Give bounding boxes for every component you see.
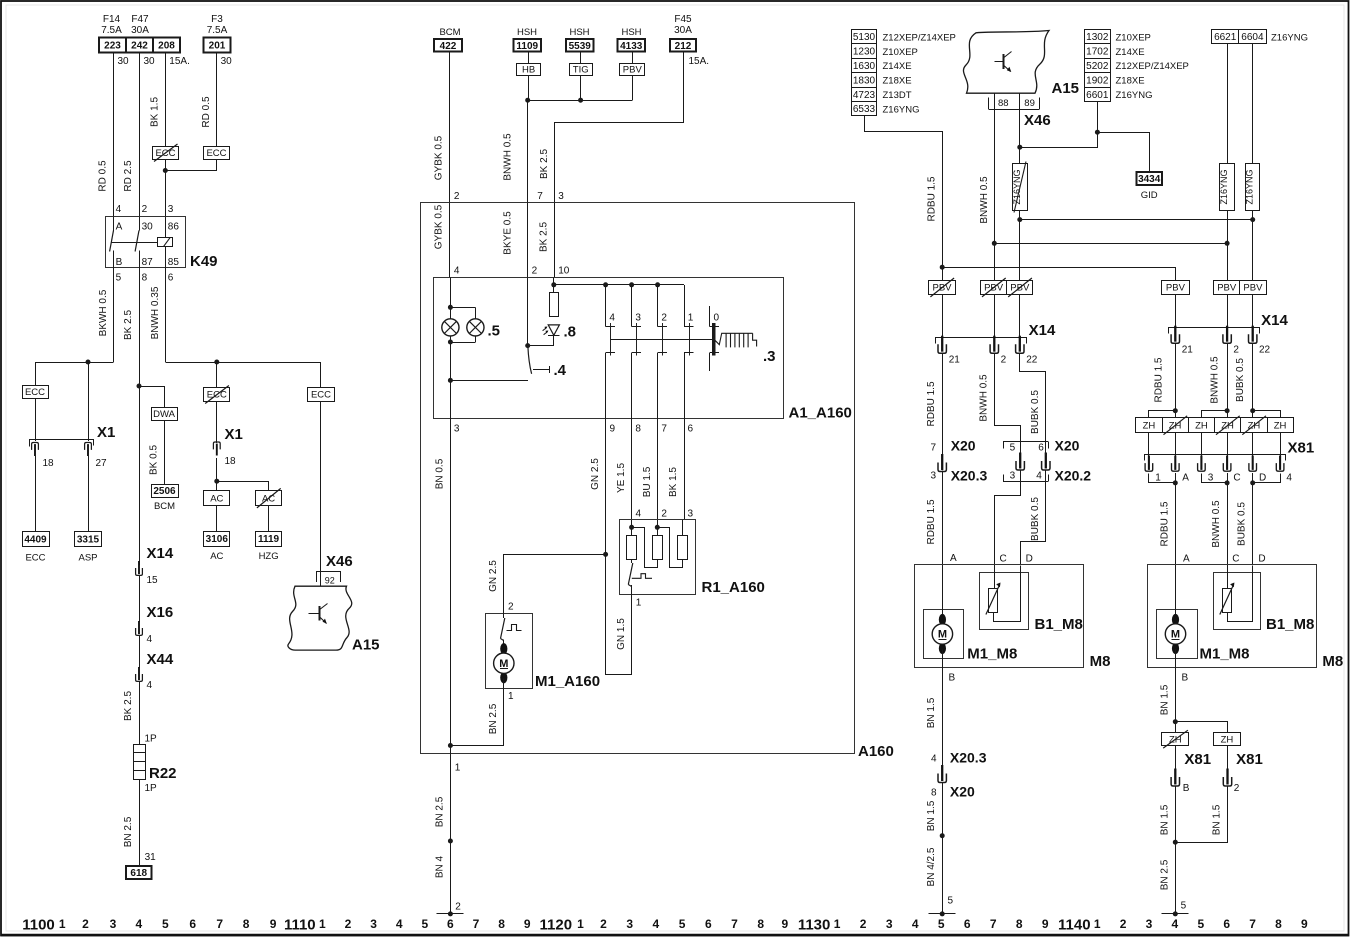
svg-text:4: 4 [1036,471,1042,482]
svg-text:X20.3: X20.3 [951,468,988,484]
rotary switch detent comb [715,333,757,347]
svg-text:M8: M8 [1090,653,1111,670]
rotary switch contact position 1 [684,285,686,327]
X1 connector bracket left [30,440,94,447]
PBV option box right pair 2 [1240,281,1267,295]
wire BN 0.5 pin 3 down [450,419,452,754]
svg-text:87: 87 [142,257,154,268]
wire BK 2.5 from K49 pin 8 [139,267,141,565]
wire RD 0.5 fuse 223 to K49 pin 4 [113,53,115,217]
svg-text:1140: 1140 [1058,917,1091,934]
svg-text:.4: .4 [554,362,567,379]
X81 pin 4 [1279,456,1281,470]
wire BK 2.5 X44 to R22 [139,682,141,745]
junction 6604 bus [1250,217,1255,222]
svg-text:BNWH 0.35: BNWH 0.35 [150,286,161,339]
svg-text:BN 1.5: BN 1.5 [1212,804,1223,835]
svg-text:10: 10 [558,266,570,277]
junction at TIG wire [578,98,583,103]
connector box 3106 [204,532,230,547]
svg-text:15A.: 15A. [169,56,190,67]
lamp circuit wire [450,278,452,419]
X81 pin A [1174,456,1176,470]
ECC option box (crossed) at AC branch [204,388,230,402]
X14 pin 2 [993,336,995,352]
svg-text:4: 4 [136,917,143,931]
wire BKWH 0.5 from K49 pin 5 [113,267,115,362]
svg-text:A15: A15 [1052,80,1080,97]
R1 internal wiring pin3 [682,520,684,536]
svg-text:BK 1.5: BK 1.5 [150,97,161,127]
wire BN 1.5 X81.B down [1175,787,1177,914]
svg-text:30A: 30A [131,25,149,36]
svg-text:BN 2.5: BN 2.5 [1159,859,1170,890]
svg-text:X14: X14 [147,545,174,562]
switch unit A1_A160 box [434,278,784,419]
wire bus to AC/HZG and A15 branches [165,362,321,364]
svg-text:30: 30 [144,56,156,67]
svg-text:3: 3 [626,917,633,931]
wire BKYE 0.5 inside A160 [527,202,529,277]
svg-text:3: 3 [110,917,117,931]
junction BUBK ZH branch [1250,408,1255,413]
module A15 outline bottom left [288,586,352,650]
svg-text:5: 5 [938,917,945,931]
DWA option box [152,408,178,421]
thermistor symbol left [989,589,998,613]
svg-text:2: 2 [82,917,89,931]
wire BNWH 0.5 to ZH row [1227,344,1229,418]
wire BN 1.5 to splice [942,783,944,914]
svg-text:212: 212 [675,41,692,52]
junction on BK 1.5 wire [163,168,168,173]
wires ZH row to X81 pins [1148,432,1150,456]
svg-text:Z14XE: Z14XE [883,61,912,72]
svg-text:3: 3 [931,471,937,482]
svg-text:RD 0.5: RD 0.5 [201,96,212,128]
wire to X1 pin 18 right [216,401,218,443]
svg-text:BU 1.5: BU 1.5 [642,466,653,497]
svg-text:X81: X81 [1184,751,1211,768]
svg-text:3: 3 [1146,917,1153,931]
svg-text:BN 0.5: BN 0.5 [435,458,446,489]
svg-text:X20: X20 [951,438,976,454]
svg-text:208: 208 [158,41,175,52]
X14 pin 22 [1019,336,1021,352]
illumination lamp .5 right [467,319,484,336]
svg-text:M1_M8: M1_M8 [967,646,1017,663]
svg-text:B1_M8: B1_M8 [1035,616,1083,633]
svg-text:3: 3 [688,509,694,520]
svg-text:5: 5 [421,917,428,931]
svg-text:M1_A160: M1_A160 [535,673,600,690]
resistor R22 [134,745,146,780]
engine variant fuse table left [852,30,877,44]
PBV option box [620,64,645,76]
svg-text:A: A [1182,473,1189,484]
svg-text:4: 4 [609,313,615,324]
svg-text:85: 85 [168,257,180,268]
ground connector box 618 [126,866,152,879]
junction M1 return [448,743,453,748]
svg-text:4723: 4723 [853,90,876,101]
svg-text:GN 2.5: GN 2.5 [488,560,499,592]
svg-text:RDBU 1.5: RDBU 1.5 [927,176,938,221]
junction at ASP branch [86,360,91,365]
svg-text:X20.3: X20.3 [950,750,987,766]
svg-text:B: B [1182,673,1189,684]
svg-text:22: 22 [1026,355,1038,366]
wire BK 1.5 pin 6 to R1 pin 3 [684,419,686,520]
svg-text:BNWH 0.5: BNWH 0.5 [503,133,514,181]
wire bus HB TIG PBV [528,75,530,100]
wire X14 to X16 [139,576,141,623]
svg-text:1100: 1100 [22,917,55,934]
R1 thermal switch [631,560,633,564]
svg-text:HSH: HSH [517,27,537,38]
rotary switch contact position 3 [631,285,633,327]
HB option box [517,64,541,76]
X81 pin D [1252,456,1254,470]
svg-text:4: 4 [912,917,919,931]
wire BNWH to right X14 pin 2 [1227,294,1229,326]
wire AC to 3106 [216,505,218,531]
wire from 6621 [1227,44,1229,164]
svg-text:1230: 1230 [853,47,876,58]
svg-text:2: 2 [1233,345,1239,356]
svg-text:R1_A160: R1_A160 [702,579,765,596]
svg-text:B: B [116,257,123,268]
svg-text:1: 1 [319,917,326,931]
wire BNWH 0.5 to A160 pin 7 [527,100,529,202]
resistor above LED [550,293,559,317]
svg-text:6533: 6533 [853,104,876,115]
svg-text:AC: AC [210,551,223,562]
svg-text:A15: A15 [352,637,380,654]
svg-text:B: B [949,673,956,684]
svg-text:15: 15 [147,575,159,586]
wire BNWH 0.35 from K49 pin 6 [165,267,167,362]
svg-text:1302: 1302 [1086,32,1109,43]
svg-text:BN 4: BN 4 [435,855,446,878]
svg-text:2: 2 [142,204,148,215]
svg-text:BNWH 0.5: BNWH 0.5 [1211,500,1222,548]
junction RDBU to right fan bus [940,265,945,270]
fuse box 6621 [1212,30,1239,44]
svg-text:4: 4 [147,634,153,645]
wire bus to ECC and ASP branches [35,362,114,364]
connector box 4409 [23,532,50,547]
fan module M8 left box [915,565,1084,668]
engine code label Z16YNG on 6604 wire [1246,164,1260,211]
R1 internal wiring pin2 [657,520,659,536]
X20.3/X20 pin lower [941,765,943,781]
fuse box 242 [126,38,153,53]
svg-text:9: 9 [1301,917,1308,931]
svg-text:1830: 1830 [853,75,876,86]
svg-text:8: 8 [142,273,148,284]
ZH option box 4 crossed [1215,418,1241,433]
svg-text:27: 27 [96,458,108,469]
svg-text:4: 4 [653,917,660,931]
svg-text:BN 2.5: BN 2.5 [435,796,446,827]
svg-text:4: 4 [636,509,642,520]
M1 thermal symbol [507,625,522,631]
junction BNWH to bus [992,241,997,246]
svg-text:4: 4 [454,266,460,277]
wire BNWH X20.2-3 to M8 pin C [995,471,1021,566]
ECC option box (crossed) on BK 1.5 wire [153,147,179,160]
svg-text:2: 2 [1001,355,1007,366]
svg-text:1630: 1630 [853,61,876,72]
svg-text:BN 4/2.5: BN 4/2.5 [926,847,937,886]
wire ECC to K49 pin 3 [165,159,167,217]
wire BU 1.5 pin 7 to R1 pin 2 [657,419,659,520]
TIG option box [570,64,593,76]
svg-text:242: 242 [131,41,148,52]
svg-text:BN 1.5: BN 1.5 [1159,684,1170,715]
ZH option box 3 [1189,418,1215,433]
svg-text:3: 3 [168,204,174,215]
svg-text:BN 1.5: BN 1.5 [1159,804,1170,835]
svg-text:6: 6 [189,917,196,931]
svg-text:9: 9 [524,917,531,931]
wire ECC to X46 pin 92 [320,401,322,586]
ECC option box on RD 0.5 wire [204,147,230,160]
svg-text:21: 21 [1182,345,1194,356]
rotary switch contact position 2 [657,285,659,327]
wire RDBU to right X14 pin 21 [1175,294,1177,326]
svg-text:BUBK 0.5: BUBK 0.5 [1237,502,1248,546]
svg-text:BNWH 0.5: BNWH 0.5 [978,374,989,422]
svg-text:Z12XEP/Z14XEP: Z12XEP/Z14XEP [883,32,956,43]
wire RD 2.5 fuse 242 to K49 pin 2 [139,53,141,217]
engine code label Z16YNG on 89 wire (crossed) [1013,164,1028,211]
svg-text:X14: X14 [1029,322,1056,339]
svg-text:BN 2.5: BN 2.5 [123,816,134,847]
svg-text:A: A [116,221,123,232]
junction at HZG branch [214,479,219,484]
connector box 4133 [618,39,646,52]
svg-text:9: 9 [782,917,789,931]
X20 pin 5-3 [1019,453,1021,469]
svg-text:RDBU 1.5: RDBU 1.5 [926,381,937,426]
ground point middle [437,913,464,915]
svg-text:BCM: BCM [439,27,460,38]
wire BUBK 0.5 to ZH row [1252,344,1254,418]
switch .4 arm [528,347,532,374]
X81 pin B [1174,769,1176,785]
transistor symbol in A15 top [995,61,1004,63]
resistor B1_M8 left box [980,573,1029,630]
svg-text:8: 8 [635,424,641,435]
svg-text:7: 7 [537,191,543,202]
wire BN 2.5 R22 to 618 [139,779,141,866]
svg-text:8: 8 [1016,917,1023,931]
rotary switch contact position 4 [605,285,607,327]
wire from 6604 [1252,44,1254,164]
svg-text:B: B [1183,783,1190,794]
svg-text:8: 8 [498,917,505,931]
svg-text:GYBK 0.5: GYBK 0.5 [434,204,445,249]
svg-text:M1_M8: M1_M8 [1200,646,1250,663]
AC option box crossed [256,491,282,506]
svg-text:X44: X44 [147,651,174,668]
svg-text:.5: .5 [488,323,501,340]
svg-text:PBV: PBV [623,65,643,76]
svg-text:7: 7 [990,917,997,931]
svg-text:5: 5 [1181,901,1187,912]
connector box 5539 [566,39,594,52]
svg-text:X16: X16 [147,604,174,621]
svg-text:21: 21 [949,355,961,366]
svg-text:4: 4 [116,204,122,215]
wire GN 2.5 branch to M1_A160 [504,555,606,614]
svg-text:1: 1 [508,691,514,702]
svg-text:4: 4 [147,680,153,691]
ground point right fan [1162,913,1189,915]
wire RDBU to X14 pin 21 [942,294,944,336]
svg-text:4: 4 [931,754,937,765]
svg-text:6621: 6621 [1214,32,1237,43]
svg-text:3: 3 [635,313,641,324]
svg-text:ECC: ECC [206,148,226,159]
svg-text:PBV: PBV [1166,283,1186,294]
svg-text:BK 0.5: BK 0.5 [149,445,160,475]
svg-text:Z12XEP/Z14XEP: Z12XEP/Z14XEP [1116,61,1189,72]
junction to GID branch [1017,145,1022,150]
svg-text:BUBK 0.5: BUBK 0.5 [1235,358,1246,402]
blower resistor R1_A160 box [620,520,696,595]
svg-text:PBV: PBV [1217,283,1237,294]
svg-text:DWA: DWA [153,409,175,420]
fuse box 212 [670,39,696,52]
svg-text:C: C [1232,554,1239,565]
svg-text:3: 3 [558,191,564,202]
svg-text:1110: 1110 [284,917,316,934]
svg-text:92: 92 [325,576,335,586]
svg-text:ECC: ECC [311,390,331,401]
svg-text:HSH: HSH [621,27,641,38]
K49 contact 30-87 [139,217,141,231]
wire BUBK 0.5 X14.22 to X20.6 [1020,354,1046,456]
ZH option box bottom [1214,733,1241,746]
wire X1.18 to 4409 [35,456,37,532]
wire YE 1.5 pin 8 to R1 pin 4 [631,419,633,520]
engine variant fuse table right [1085,30,1111,44]
wire BK 2.5 fuse 212 to A160 pin 3 [555,52,684,203]
left ECC branch wire [35,362,37,385]
svg-text:9: 9 [610,424,616,435]
wire ZH to X81 pin 2 [1227,746,1229,769]
svg-text:YE 1.5: YE 1.5 [616,463,627,493]
R1 resistor element 1 [627,536,637,560]
svg-text:BN 2.5: BN 2.5 [488,703,499,734]
svg-text:7.5A: 7.5A [101,25,122,36]
junction at 3434 branch [1095,130,1100,135]
svg-text:5: 5 [1197,917,1204,931]
svg-text:BN 1.5: BN 1.5 [926,800,937,831]
svg-text:3: 3 [886,917,893,931]
svg-text:4409: 4409 [24,534,47,545]
K49 coil [158,238,173,247]
svg-text:2: 2 [661,313,667,324]
svg-text:C: C [1000,554,1007,565]
connector X81 bracket [1145,455,1286,461]
svg-text:1: 1 [834,917,841,931]
ground point left fan [929,913,956,915]
R1 internal wiring pin4 [631,520,633,536]
svg-text:BNWH 0.5: BNWH 0.5 [979,176,990,224]
X20 single pin [941,454,943,470]
wire ASP branch to X1 pin 27 [88,362,90,441]
svg-text:X20: X20 [1055,438,1080,454]
svg-text:201: 201 [209,41,226,52]
svg-text:ECC: ECC [25,387,45,398]
svg-text:BK 2.5: BK 2.5 [123,310,134,340]
wire BUBK to X14 pin 22 [1019,294,1021,336]
svg-text:F45: F45 [674,14,692,25]
svg-text:223: 223 [104,41,121,52]
connector X14 bracket right group [1169,328,1260,334]
junction to DWA branch [137,384,142,389]
svg-text:HZG: HZG [259,551,279,562]
svg-text:1109: 1109 [516,41,538,52]
svg-text:X46: X46 [326,553,353,570]
svg-text:6601: 6601 [1086,90,1109,101]
svg-text:7: 7 [1249,917,1256,931]
svg-text:TIG: TIG [573,65,589,76]
junction at HB wire [525,98,530,103]
wire BK 1.5 fuse 208 to ECC [165,53,167,147]
switch .4 contact [533,369,550,371]
svg-text:Z14XE: Z14XE [1116,47,1145,58]
svg-text:8: 8 [931,788,937,799]
svg-text:Z16YNG: Z16YNG [1219,169,1229,204]
svg-text:BKYE 0.5: BKYE 0.5 [503,211,514,255]
svg-text:RDBU 1.5: RDBU 1.5 [1159,501,1170,546]
svg-text:HSH: HSH [569,27,589,38]
svg-text:5202: 5202 [1086,61,1109,72]
wire X16 to X44 [139,636,141,669]
PBV option box crossed mid-right [1007,281,1033,295]
svg-text:31: 31 [145,852,157,863]
svg-text:2: 2 [661,509,667,520]
svg-text:89: 89 [1024,98,1035,109]
PBV option box right pair 1 [1214,281,1240,295]
svg-text:A1_A160: A1_A160 [789,405,852,422]
rotary switch contact position 0 [709,306,711,326]
rotary switch wiper track line [611,339,714,341]
svg-text:X81: X81 [1288,440,1315,457]
svg-text:7.5A: 7.5A [207,25,228,36]
X14 pin 21 [941,336,943,352]
svg-text:X14: X14 [1261,312,1288,329]
svg-text:GN 1.5: GN 1.5 [616,618,627,650]
svg-text:F14: F14 [103,14,121,25]
wire GN 1.5 R1 pin 1 [631,594,633,675]
svg-text:RDBU 1.5: RDBU 1.5 [1154,357,1165,402]
junction 6621 bus [1225,241,1230,246]
wire AC branch down to ECC crossed [216,362,218,388]
fan motor M1_M8 right box [1157,610,1198,659]
X14 right pin 2 [1226,326,1228,342]
svg-text:D: D [1258,554,1265,565]
svg-text:RD 2.5: RD 2.5 [123,160,134,192]
wire 89 continues to PBV [1019,210,1021,280]
svg-text:422: 422 [440,41,457,52]
svg-text:9: 9 [1042,917,1049,931]
